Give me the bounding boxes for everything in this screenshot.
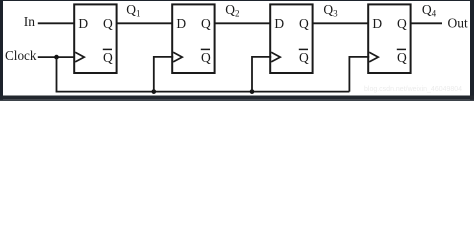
wire Q1: U1.Q to U2.D [117,22,173,24]
svg-text:D: D [274,16,284,31]
svg-text:D: D [176,16,186,31]
clock input triangle [271,52,280,62]
svg-text:Q: Q [103,16,113,31]
svg-text:Q: Q [299,50,309,65]
junction: clock node on clock wire [54,55,59,60]
wire: riser to U4 clock input [349,57,369,92]
wire: Clock to U1 clock input [38,56,75,58]
flip-flop U4 body [368,4,410,73]
wire: In to U1 D input [38,22,74,24]
svg-text:Q: Q [397,50,407,65]
D flip-flop U2 [172,4,214,73]
svg-text:Out: Out [448,15,468,30]
flip-flop U1 body [74,4,116,73]
svg-text:Q: Q [397,16,407,31]
svg-text:Q: Q [103,50,113,65]
wire: riser to U2 clock input [154,57,173,92]
svg-text:In: In [24,14,35,29]
svg-text:D: D [372,16,382,31]
svg-text:Q: Q [201,50,211,65]
flip-flop U3 body [270,4,312,73]
svg-text:Q: Q [299,16,309,31]
D flip-flop U1 [74,4,116,73]
clock input triangle [173,52,182,62]
wire: clock bottom distribution rail [56,91,350,93]
wire: riser to U3 clock input [252,57,271,92]
D flip-flop U3 [270,4,312,73]
D flip-flop U4 [368,4,410,73]
wire: clock vertical drop to bottom rail [56,57,58,92]
clock input triangle [369,52,378,62]
junction: rail to U2 riser [151,89,156,94]
wire Q3: U3.Q to U4.D [313,22,369,24]
svg-text:Q: Q [201,16,211,31]
svg-text:D: D [78,16,88,31]
junction: rail to U3 riser [250,89,255,94]
wire Q2: U2.Q to U3.D [215,22,271,24]
wire Out: U4.Q to output [411,22,442,24]
clock input triangle [75,52,84,62]
svg-text:Clock: Clock [5,48,37,63]
svg-text:blog.csdn.net/weixin_46049804: blog.csdn.net/weixin_46049804 [364,86,462,93]
flip-flop U2 body [172,4,214,73]
